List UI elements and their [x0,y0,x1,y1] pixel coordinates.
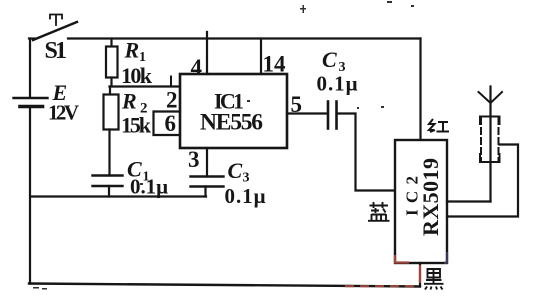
wire left rail upper [29,39,31,98]
transistor IC2 box RX5019 [395,140,447,263]
antenna [479,87,503,202]
wire top rail [68,37,421,39]
wire IC2 right to tap [447,145,518,217]
capacitor C1 [93,176,123,197]
svg-text:0.1μ: 0.1μ [317,72,358,96]
svg-text:C: C [322,47,337,72]
svg-text:NE556: NE556 [200,110,263,136]
label red hong [429,119,449,132]
ferrite rod bottom bracket [480,154,500,162]
wire IC2 right to coil bottom [447,200,491,202]
svg-text:2: 2 [166,88,178,113]
svg-text:4: 4 [191,55,203,80]
stray specks [33,1,414,290]
label black hei [424,269,444,290]
wire IC2 black lead [419,263,421,286]
pin 6 box [154,112,181,136]
capacitor C3 upper coupling [328,102,337,129]
ferrite rod dashed sides [481,118,499,160]
svg-text:R: R [124,38,140,63]
svg-text:15k: 15k [121,113,152,138]
svg-text:12V: 12V [48,101,79,125]
ferrite rod top bracket [480,117,500,125]
label blue lan [368,202,390,221]
svg-text:5: 5 [291,92,303,117]
svg-text:0.1μ: 0.1μ [225,184,266,208]
capacitor C3 lower [191,177,224,197]
wire cap to IC2 blue lead [337,114,395,191]
wire pin 4 [206,32,208,74]
svg-text:R: R [121,89,137,114]
blue scan artifacts [444,252,448,263]
resistor R1 [106,39,118,87]
wire pin 5 [287,112,327,114]
svg-text:14: 14 [263,52,287,77]
svg-text:6: 6 [165,111,177,136]
node tick above pin2 wire [170,77,172,86]
wire mid ground return [31,195,206,197]
wire bottom rail [29,284,420,287]
battery E [14,98,48,107]
wire pin 3 [206,148,208,177]
svg-text:1: 1 [55,38,67,64]
wire left rail lower [29,108,31,284]
switch S1 [29,15,77,41]
svg-text:10k: 10k [121,63,153,88]
wire red lead from top rail [419,39,421,141]
svg-text:3: 3 [188,147,200,172]
svg-text:RX5019: RX5019 [418,158,443,236]
red scan artifacts [345,255,420,286]
wire pin2 junction [110,85,181,87]
resistor R2 [104,87,119,176]
wire pin 14 [260,39,262,75]
svg-text:0.1μ: 0.1μ [130,175,168,199]
svg-text:C: C [228,158,243,183]
op-amp U1: IC1 box [180,74,287,148]
